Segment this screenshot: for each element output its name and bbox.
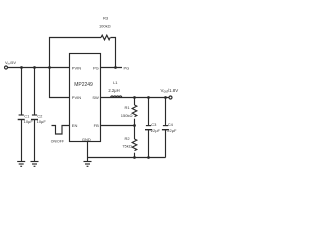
svg-text:R2: R2	[125, 136, 131, 141]
svg-text:SW: SW	[92, 95, 99, 100]
svg-text:GND: GND	[82, 137, 91, 142]
svg-text:PVIN: PVIN	[72, 65, 81, 70]
svg-text:PVIN: PVIN	[72, 95, 81, 100]
svg-text:R3: R3	[103, 16, 109, 21]
svg-text:MP2249: MP2249	[74, 82, 93, 88]
svg-text:PG: PG	[124, 66, 130, 71]
svg-text:ON/OFF: ON/OFF	[51, 140, 64, 144]
svg-text:10μF: 10μF	[24, 119, 34, 124]
svg-text:C4: C4	[168, 122, 174, 127]
svg-text:Vin/5V: Vin/5V	[5, 60, 16, 66]
svg-text:C2: C2	[37, 113, 43, 118]
svg-text:22μF: 22μF	[167, 128, 177, 133]
svg-text:100kΩ: 100kΩ	[99, 24, 111, 29]
svg-text:150kΩ: 150kΩ	[121, 113, 133, 118]
svg-text:FB: FB	[94, 123, 99, 128]
svg-text:R1: R1	[125, 105, 131, 110]
svg-text:2.2μH: 2.2μH	[108, 88, 119, 93]
svg-text:PG: PG	[93, 65, 99, 70]
svg-text:L1: L1	[113, 80, 118, 85]
svg-text:75kΩ: 75kΩ	[122, 144, 131, 149]
svg-text:Vout/1.8V: Vout/1.8V	[161, 88, 179, 94]
svg-text:C1: C1	[24, 113, 30, 118]
svg-text:10μF: 10μF	[37, 119, 47, 124]
svg-text:EN: EN	[72, 123, 78, 128]
svg-text:22μF: 22μF	[151, 128, 161, 133]
svg-text:C3: C3	[151, 122, 157, 127]
